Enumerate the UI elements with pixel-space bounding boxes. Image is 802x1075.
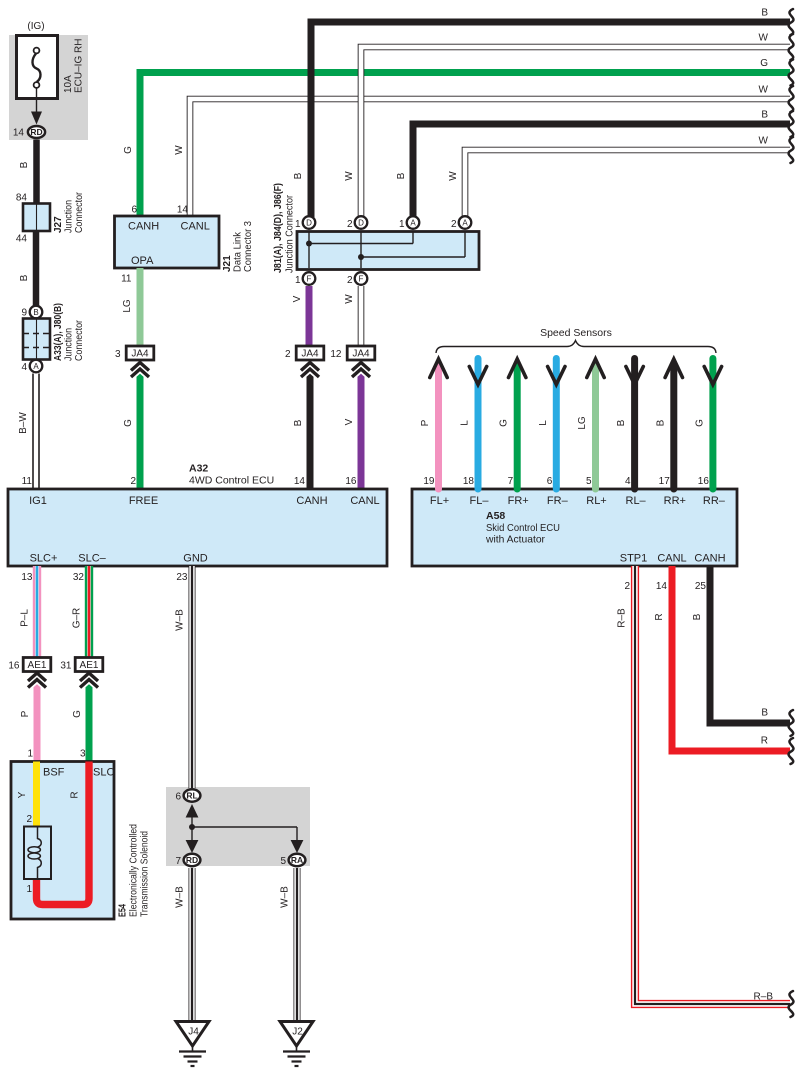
svg-text:AE1: AE1 (28, 660, 47, 671)
svg-text:SLC: SLC (93, 767, 114, 779)
svg-text:with Actuator: with Actuator (485, 534, 545, 546)
break symbol and label W at right edge y=99 (789, 86, 794, 112)
fuse element symbol (34, 48, 40, 54)
ground J2 (280, 1022, 313, 1047)
wire W-B from RD to ground J4 (189, 868, 196, 1021)
svg-text:3: 3 (80, 749, 86, 760)
svg-text:1: 1 (295, 219, 301, 230)
relay block background (166, 787, 310, 866)
svg-text:2: 2 (347, 219, 353, 230)
svg-text:RL–: RL– (626, 495, 647, 507)
wire B from A58 CANH pin25 to right edge (710, 566, 790, 723)
svg-text:RL: RL (186, 791, 197, 801)
svg-text:JA4: JA4 (131, 349, 149, 360)
terminal 5 (RA) (289, 854, 306, 866)
svg-text:L: L (538, 420, 549, 426)
svg-text:IG1: IG1 (29, 495, 47, 507)
svg-text:R: R (761, 736, 768, 747)
terminal 6 (RL) (184, 789, 201, 801)
terminal 4 (A) (30, 360, 43, 373)
svg-text:D: D (358, 218, 364, 227)
svg-text:R: R (654, 613, 665, 620)
svg-text:12: 12 (330, 349, 342, 360)
svg-text:2: 2 (130, 476, 136, 487)
wire B: from J81 pin 1(A) to right edge (413, 124, 790, 218)
J81 pin 1(D) (303, 216, 316, 229)
svg-text:FL–: FL– (470, 495, 490, 507)
svg-text:4: 4 (625, 476, 631, 487)
svg-text:CANL: CANL (657, 553, 686, 565)
svg-text:W: W (344, 171, 355, 181)
svg-text:13: 13 (21, 572, 33, 583)
svg-text:FREE: FREE (129, 495, 158, 507)
svg-text:Electronically Controlled: Electronically Controlled (129, 824, 140, 917)
svg-text:SLC+: SLC+ (30, 553, 58, 565)
break symbol and label G at right edge y=72.5 (789, 60, 794, 86)
svg-text:STP1: STP1 (620, 553, 648, 565)
svg-text:W–B: W–B (175, 609, 186, 631)
svg-text:FR+: FR+ (508, 495, 529, 507)
wire B from JA4 to A32 CANH pin14 (307, 360, 314, 489)
relay internal wiring (192, 816, 297, 841)
svg-text:2: 2 (285, 349, 291, 360)
ECU A32 4WD Control ECU box (8, 489, 387, 566)
speed sensor wire G at x=517.2 (514, 364, 521, 490)
svg-text:Speed Sensors: Speed Sensors (540, 327, 612, 339)
svg-text:6: 6 (547, 476, 553, 487)
svg-text:B: B (616, 419, 627, 426)
svg-text:Connector: Connector (74, 319, 85, 361)
svg-text:4: 4 (21, 362, 27, 373)
svg-text:B: B (19, 274, 30, 281)
wire W: from J81 pin 2(A) to right edge (465, 150, 790, 218)
svg-text:Connector 3: Connector 3 (243, 221, 254, 272)
svg-text:AE1: AE1 (80, 660, 99, 671)
connector 2 JA4 (301, 363, 319, 371)
svg-text:23: 23 (176, 572, 188, 583)
J81 pin 1(F) (303, 272, 316, 285)
svg-text:B–W: B–W (18, 412, 29, 434)
svg-text:R–B: R–B (617, 608, 628, 628)
svg-text:16: 16 (698, 476, 710, 487)
wire B from J27 to A33 (33, 231, 40, 307)
svg-text:6: 6 (131, 205, 137, 216)
svg-text:J27: J27 (53, 216, 64, 233)
svg-text:14: 14 (656, 581, 668, 592)
svg-text:CANH: CANH (128, 221, 159, 233)
svg-text:19: 19 (423, 476, 435, 487)
svg-text:B: B (396, 172, 407, 179)
wire B: from J81 pin 1(D) to right edge (311, 22, 790, 218)
svg-text:(IG): (IG) (27, 21, 44, 32)
svg-text:G: G (499, 419, 510, 427)
svg-text:RL+: RL+ (586, 495, 607, 507)
fuse 10A ECU-IG RH box (17, 36, 58, 99)
svg-text:Junction Connector: Junction Connector (285, 194, 296, 273)
J81 internal wiring (309, 232, 465, 268)
svg-text:B: B (19, 161, 30, 168)
svg-text:W: W (174, 145, 185, 155)
svg-text:RD: RD (186, 855, 198, 865)
svg-text:J2: J2 (292, 1027, 303, 1038)
svg-text:Junction: Junction (64, 328, 75, 361)
svg-text:GND: GND (183, 553, 208, 565)
svg-text:CANH: CANH (694, 553, 725, 565)
break symbol and label W at right edge y=47 (789, 34, 794, 60)
svg-text:RD: RD (30, 127, 42, 137)
svg-text:L: L (460, 420, 471, 426)
wire P-L from A32 SLC+ pin13 to AE1 (33, 566, 41, 658)
svg-text:Connector: Connector (74, 191, 85, 233)
svg-text:A33(A), J80(B): A33(A), J80(B) (53, 303, 64, 361)
wire from fuse to RD with arrow (36, 88, 38, 116)
svg-text:2: 2 (26, 814, 32, 825)
svg-text:17: 17 (659, 476, 671, 487)
speed sensor wire G at x=712.9 (709, 359, 716, 490)
svg-text:D: D (306, 218, 312, 227)
wire G: CAN H bus from J21 pin6 to right edge (140, 73, 790, 217)
wire G-R from A32 SLC- pin32 to AE1 (85, 566, 93, 658)
solenoid coil (24, 827, 51, 880)
svg-text:P: P (20, 710, 31, 717)
svg-text:Transmission Solenoid: Transmission Solenoid (140, 831, 151, 917)
Speed Sensors brace (436, 341, 716, 354)
svg-text:2: 2 (451, 219, 457, 230)
svg-text:44: 44 (16, 234, 28, 245)
svg-text:B: B (655, 419, 666, 426)
wire B from RD to J27 (33, 140, 40, 205)
junction connector J81(A), J84(D), J86(F) box (297, 232, 479, 270)
speed sensor wire LG at x=595.5 (592, 364, 599, 490)
svg-text:CANL: CANL (181, 221, 210, 233)
svg-text:G: G (760, 58, 768, 69)
svg-text:LG: LG (122, 299, 133, 313)
svg-text:G: G (694, 419, 705, 427)
svg-text:CANL: CANL (350, 495, 379, 507)
svg-text:16: 16 (345, 476, 357, 487)
wire W-B from RA to ground J2 (294, 868, 301, 1021)
wire V from J81 1(F) to JA4 pin2 (306, 286, 313, 347)
arrow into RA (291, 840, 304, 853)
junction connector J27 (23, 204, 50, 232)
svg-text:9: 9 (21, 308, 27, 319)
connector 31 AE1 (80, 673, 98, 681)
connector 3 JA4 (131, 363, 149, 371)
J21 Data Link Connector 3 box (115, 216, 220, 268)
J81 pin 2(A) (459, 216, 472, 229)
svg-text:4WD Control ECU: 4WD Control ECU (189, 475, 274, 487)
wire W: from J81 pin 2(D) to right edge (361, 47, 790, 218)
break symbol and label W at right edge y=150 (789, 137, 794, 163)
svg-text:84: 84 (16, 193, 28, 204)
svg-text:1: 1 (295, 275, 301, 286)
wire W: CAN L bus from J21 pin14 to right edge (190, 99, 790, 216)
svg-text:FL+: FL+ (430, 495, 449, 507)
svg-text:B: B (761, 8, 768, 19)
svg-text:V: V (344, 418, 355, 425)
svg-text:F: F (359, 274, 364, 283)
svg-text:A: A (410, 218, 416, 227)
break symbol and label B at right edge y=22 (789, 9, 794, 35)
svg-text:J21: J21 (222, 255, 233, 272)
svg-text:OPA: OPA (131, 255, 154, 267)
svg-text:11: 11 (121, 274, 132, 285)
svg-text:FR–: FR– (547, 495, 569, 507)
svg-text:J81(A), J84(D), J86(F): J81(A), J84(D), J86(F) (273, 183, 284, 273)
svg-text:14: 14 (177, 205, 189, 216)
svg-text:Data Link: Data Link (233, 231, 244, 272)
svg-text:V: V (292, 295, 303, 302)
svg-text:W: W (759, 136, 769, 147)
terminal 14 (RD) (28, 126, 45, 138)
svg-text:F: F (307, 274, 312, 283)
svg-text:B: B (761, 708, 768, 719)
svg-text:6: 6 (175, 792, 181, 803)
svg-text:2: 2 (624, 581, 630, 592)
svg-text:1: 1 (27, 749, 33, 760)
svg-text:W–B: W–B (280, 886, 291, 908)
svg-text:RR–: RR– (703, 495, 726, 507)
wire P from AE1 to E54 pin1 (34, 672, 41, 762)
wire R inside E54 (37, 762, 90, 905)
svg-text:31: 31 (60, 661, 72, 672)
svg-text:SLC–: SLC– (78, 553, 106, 565)
svg-text:1: 1 (26, 884, 32, 895)
svg-text:W: W (448, 171, 459, 181)
svg-text:RA: RA (291, 855, 303, 865)
svg-text:14: 14 (294, 476, 306, 487)
wire LG from J21 OPA pin11 to JA4 pin3 (137, 268, 144, 347)
ground J4 (176, 1022, 209, 1047)
svg-text:1: 1 (399, 219, 405, 230)
terminal 7 (RD) (184, 854, 201, 866)
svg-text:32: 32 (73, 572, 85, 583)
svg-text:W: W (344, 294, 355, 304)
svg-text:G: G (123, 419, 134, 427)
speed sensor wire P at x=438.5 (435, 364, 442, 490)
svg-text:CANH: CANH (296, 495, 327, 507)
svg-text:B: B (293, 419, 304, 426)
svg-text:BSF: BSF (43, 767, 65, 779)
svg-text:W: W (759, 85, 769, 96)
wire R-B from A58 STP1 pin2 to right edge (635, 566, 790, 1004)
break symbol and label B at right edge y=124 (789, 111, 794, 137)
svg-text:5: 5 (280, 856, 286, 867)
svg-text:10A: 10A (63, 75, 74, 93)
svg-text:G–R: G–R (72, 608, 83, 629)
svg-text:E54: E54 (118, 904, 129, 917)
speed sensor wire B at x=673.8 (670, 364, 677, 490)
svg-text:RR+: RR+ (664, 495, 686, 507)
svg-text:A58: A58 (486, 510, 505, 522)
J81 pin 2(D) (355, 216, 368, 229)
svg-text:7: 7 (508, 476, 514, 487)
svg-text:11: 11 (22, 476, 33, 487)
svg-text:B: B (33, 308, 38, 317)
svg-text:JA4: JA4 (352, 349, 370, 360)
svg-text:W: W (759, 33, 769, 44)
svg-text:P: P (420, 419, 431, 426)
speed sensor wire L at x=478 (475, 359, 482, 490)
svg-text:A: A (462, 218, 468, 227)
svg-text:16: 16 (8, 661, 20, 672)
wire R from A58 CANL pin14 to right edge (672, 566, 790, 751)
arrow into RL (186, 804, 199, 818)
svg-text:G: G (123, 146, 134, 154)
terminal 9 (B) (30, 306, 43, 319)
svg-text:7: 7 (175, 856, 181, 867)
E54 Electronically Controlled Transmission Solenoid box (11, 762, 114, 920)
wire V from JA4 to A32 CANL pin16 (358, 360, 365, 489)
svg-text:R–B: R–B (754, 992, 774, 1003)
J81 pin 2(F) (355, 272, 368, 285)
svg-text:G: G (72, 710, 83, 718)
svg-text:R: R (70, 791, 81, 798)
svg-text:B: B (293, 172, 304, 179)
svg-text:A: A (33, 362, 39, 371)
svg-text:2: 2 (347, 275, 353, 286)
speed sensor wire B at x=634.6 (631, 359, 638, 490)
svg-text:Y: Y (17, 791, 28, 798)
wire W-B from A32 GND pin23 to relay block RL (189, 566, 196, 788)
wire Y inside E54 (33, 762, 40, 828)
ignition fuse background block (9, 35, 88, 140)
wire B-W from A33 to A32 IG1 pin11 (32, 374, 40, 490)
svg-text:LG: LG (577, 416, 588, 430)
connector 16 AE1 (28, 673, 46, 681)
connector 12 JA4 (352, 363, 370, 371)
svg-text:P–L: P–L (20, 609, 31, 627)
svg-text:J4: J4 (188, 1027, 199, 1038)
svg-text:5: 5 (586, 476, 592, 487)
wire G from AE1 to E54 pin3 (86, 672, 93, 762)
svg-text:Skid Control ECU: Skid Control ECU (486, 522, 560, 534)
svg-text:Junction: Junction (64, 200, 75, 233)
J81 pin 1(A) (407, 216, 420, 229)
svg-text:3: 3 (115, 349, 121, 360)
svg-text:25: 25 (695, 581, 707, 592)
svg-text:B: B (761, 110, 768, 121)
svg-text:JA4: JA4 (301, 349, 319, 360)
wire W from J81 2(F) to JA4 pin12 (358, 286, 365, 347)
svg-text:14: 14 (13, 128, 25, 139)
junction connector A33(A), J80(B) (23, 319, 50, 360)
arrow into RD (186, 840, 199, 853)
wire G from JA4 to A32 FREE pin2 (137, 360, 144, 489)
svg-text:ECU–IG RH: ECU–IG RH (74, 39, 85, 93)
svg-text:18: 18 (463, 476, 475, 487)
svg-text:A32: A32 (189, 463, 208, 475)
speed sensor wire L at x=556.3 (553, 359, 560, 490)
svg-text:B: B (692, 613, 703, 620)
svg-text:W–B: W–B (175, 886, 186, 908)
ECU A58 Skid Control ECU box (412, 489, 737, 566)
